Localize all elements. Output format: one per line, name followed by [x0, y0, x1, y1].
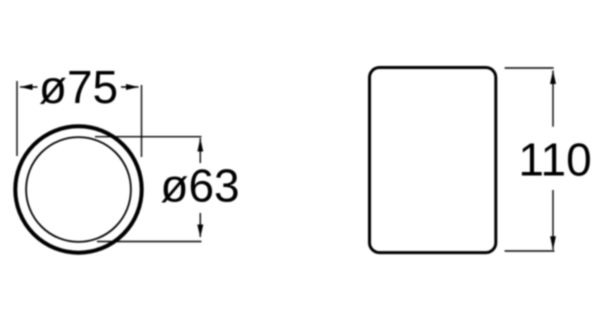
svg-text:ø75: ø75 — [39, 61, 118, 113]
svg-text:110: 110 — [518, 134, 591, 186]
svg-text:ø63: ø63 — [160, 160, 239, 212]
